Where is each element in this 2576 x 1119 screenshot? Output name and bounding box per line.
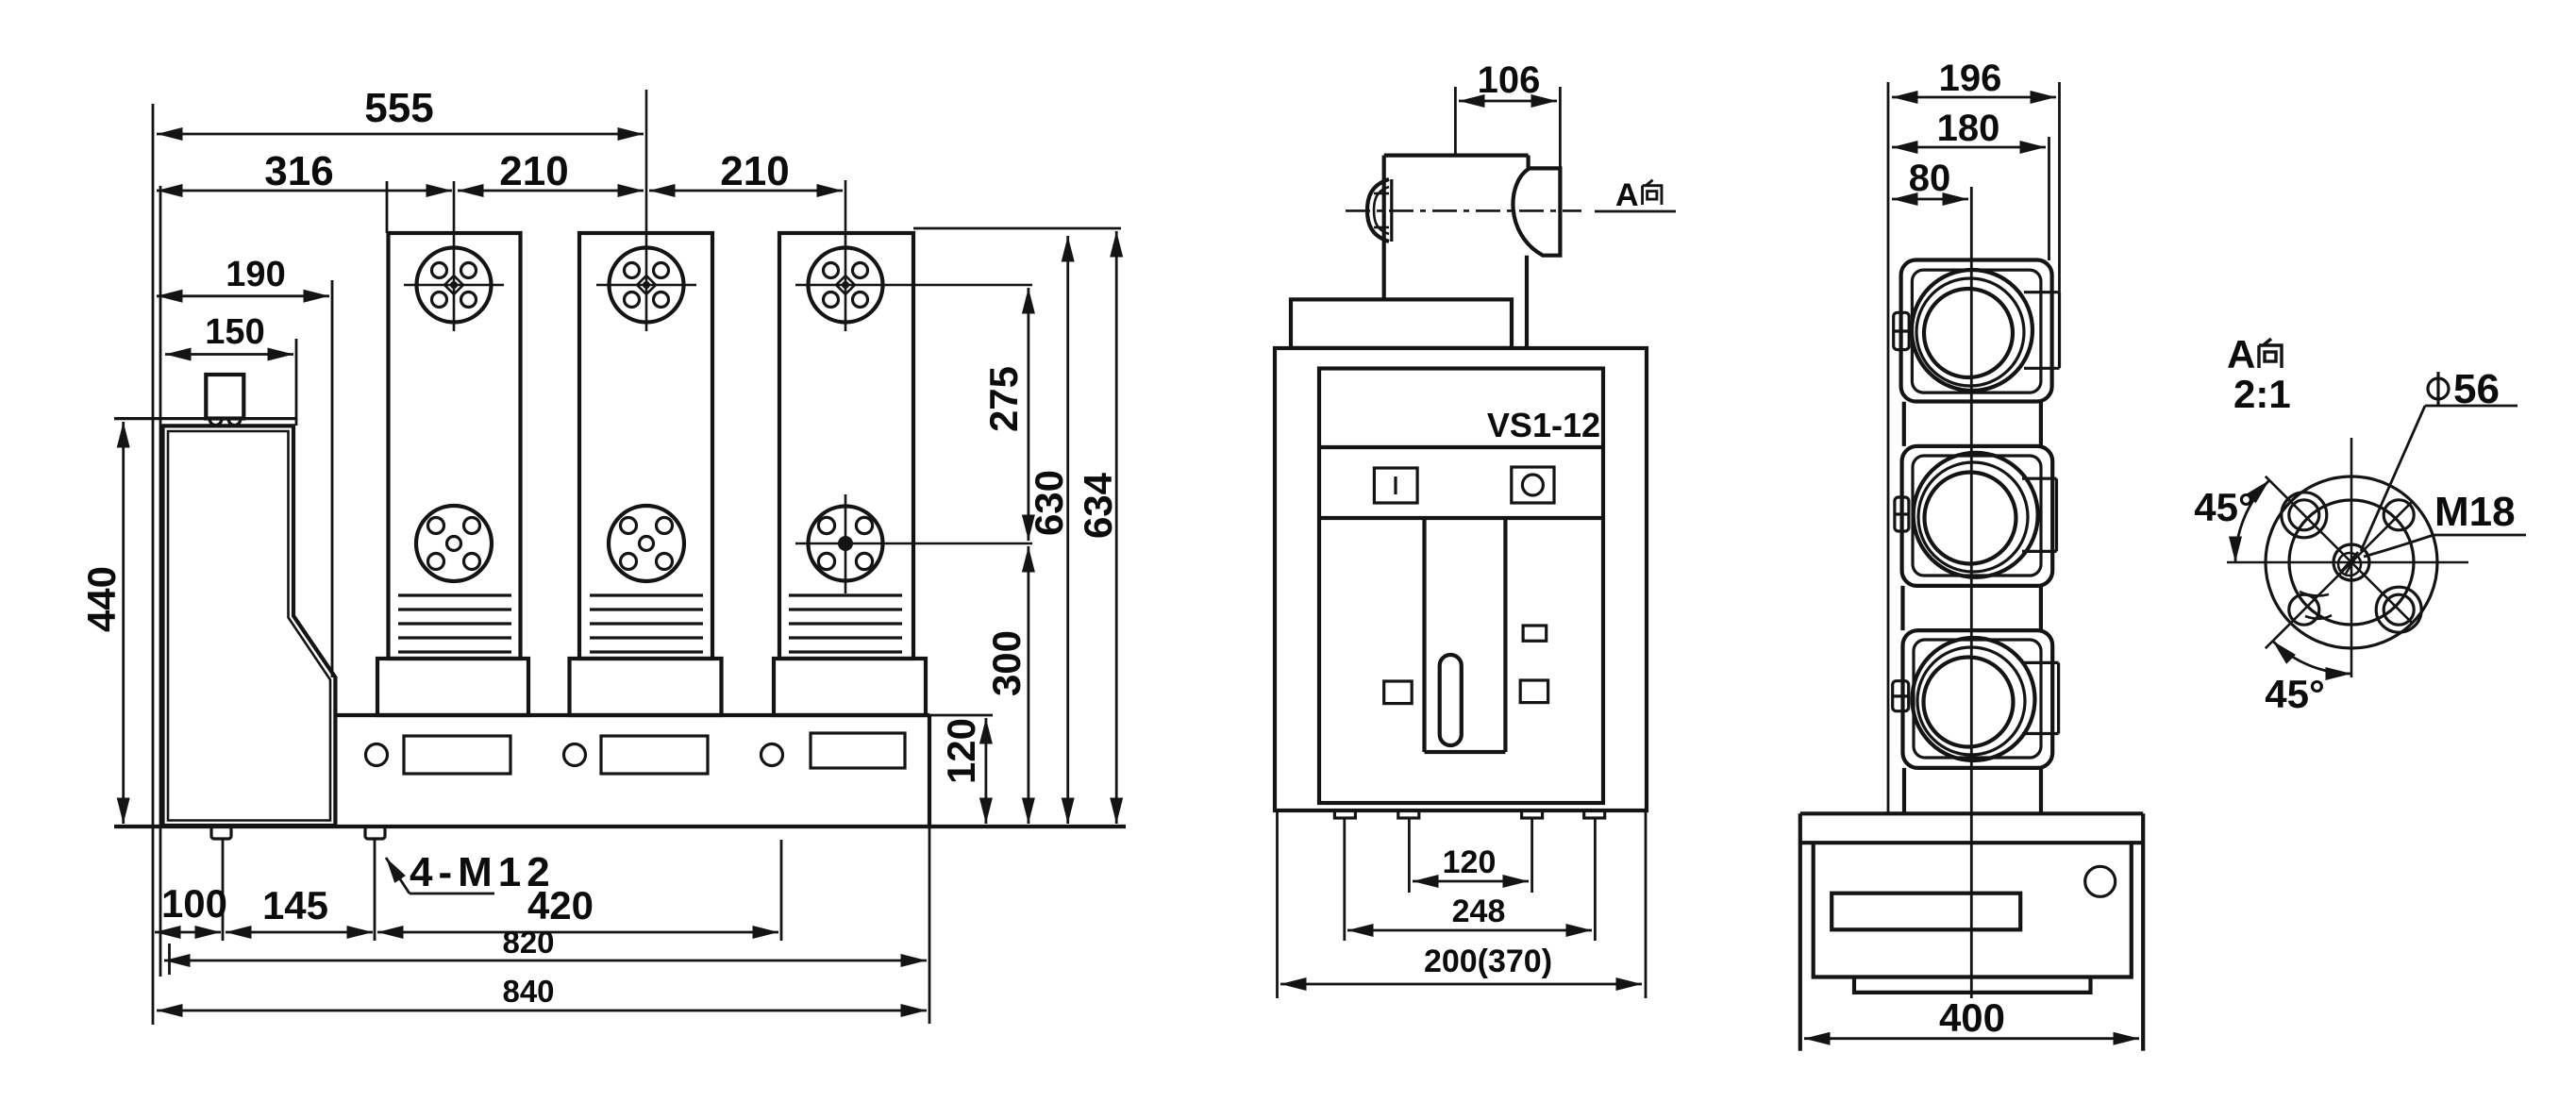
- pole 3 body: [779, 233, 913, 659]
- foot line 2: [1408, 818, 1411, 893]
- housing 1 inner: [1912, 270, 2040, 392]
- dim 80: [1892, 198, 1968, 201]
- svg-text:820: 820: [502, 925, 554, 960]
- svg-text:190: 190: [226, 255, 285, 294]
- svg-text:145: 145: [262, 883, 328, 927]
- dim 316: [157, 190, 452, 192]
- dim 106: [1459, 100, 1557, 103]
- dim 145: [226, 931, 373, 934]
- svg-text:2:1: 2:1: [2233, 372, 2291, 416]
- pole boot 1: [377, 659, 528, 715]
- channel right: [1503, 518, 1507, 752]
- svg-text:180: 180: [1937, 108, 2000, 149]
- foot tab 2: [1398, 810, 1419, 818]
- foot line 1: [1343, 818, 1346, 941]
- mech box foot 1: [211, 827, 231, 839]
- mechanism box outer: [163, 426, 336, 826]
- base outer side left: [1798, 813, 1802, 1050]
- pole centerline right view: [1970, 187, 1973, 998]
- svg-text:100: 100: [161, 881, 227, 926]
- hub scribble: [2341, 552, 2358, 574]
- spoke SE: [2351, 562, 2412, 623]
- mounting bracket: [1291, 299, 1512, 348]
- pole boot 2: [570, 659, 722, 715]
- dim 150: [165, 353, 293, 356]
- clip 3: [1893, 681, 1909, 711]
- hole circle 3: [761, 744, 783, 766]
- button I: [1374, 468, 1417, 503]
- bolt hole BR ring: [2376, 587, 2421, 632]
- lower flange pole 2: [609, 506, 684, 581]
- dim 248: [1347, 929, 1592, 932]
- crosshair vertical: [2350, 438, 2353, 677]
- top flange pole 1: [404, 181, 504, 331]
- centerline dash-dot: [1346, 209, 1581, 212]
- svg-text:634: 634: [1076, 472, 1120, 539]
- box side ext left: [1276, 810, 1279, 998]
- top block hook right: [228, 419, 241, 426]
- ext left long: [1887, 82, 1890, 814]
- dim 180: [1892, 146, 2046, 149]
- small square left: [1384, 681, 1413, 704]
- channel left: [1422, 518, 1426, 752]
- ext 420 right: [780, 840, 783, 941]
- oval slot: [1440, 655, 1462, 745]
- arc 45 bottom: [2273, 641, 2351, 674]
- svg-text:80: 80: [1909, 158, 1951, 199]
- foot 1 line: [222, 839, 225, 941]
- clip 2: [1895, 497, 1909, 531]
- housing 2 outer: [1902, 446, 2053, 586]
- svg-text:248: 248: [1452, 894, 1506, 929]
- contact dome arc: [1513, 168, 1543, 255]
- band line 1: [1319, 445, 1603, 449]
- dim 120 left view: [985, 718, 988, 824]
- dim 200(370): [1280, 983, 1642, 986]
- svg-text:210: 210: [499, 148, 568, 194]
- bracket 2: [2022, 478, 2057, 551]
- sketch marks: [2300, 592, 2332, 619]
- dim 190: [157, 294, 329, 297]
- svg-text:630: 630: [1027, 470, 1071, 536]
- dim 634: [1115, 231, 1118, 824]
- top flange pole 3: [795, 180, 1032, 331]
- spoke NW: [2266, 476, 2351, 562]
- base slot: [1832, 894, 2020, 930]
- extension line left inner: [159, 186, 162, 977]
- top block: [206, 375, 243, 419]
- svg-text:200(370): 200(370): [1424, 944, 1552, 979]
- pole body right step: [1526, 156, 1530, 170]
- foot line 3: [1531, 818, 1533, 893]
- bushing tick bottom: [1374, 226, 1389, 229]
- housing 2 circles: [1914, 453, 2038, 577]
- dim 275: [1028, 288, 1030, 541]
- base pedestal: [1854, 977, 2091, 993]
- svg-text:196: 196: [1939, 58, 2002, 99]
- housing 2 inner: [1913, 456, 2041, 576]
- svg-text:316: 316: [264, 148, 333, 194]
- svg-text:275: 275: [981, 366, 1026, 432]
- hub outer: [2333, 544, 2369, 580]
- ext 106 left: [1454, 87, 1457, 155]
- dim 120 middle: [1413, 880, 1529, 883]
- bolt hole TR: [2384, 500, 2414, 530]
- pole 3 hatch: [789, 595, 902, 652]
- right lower edge: [1525, 256, 1529, 348]
- phi symbol: [2428, 372, 2449, 406]
- base body: [1814, 843, 2132, 977]
- svg-text:A: A: [2227, 332, 2255, 376]
- foot tab 4: [1584, 810, 1605, 818]
- svg-text:210: 210: [720, 148, 789, 194]
- small square right upper: [1523, 626, 1547, 641]
- A-view underline: [1595, 210, 1676, 213]
- bolt hole TL ring: [2282, 493, 2327, 538]
- svg-text:150: 150: [205, 312, 264, 352]
- dim 400: [1804, 1037, 2139, 1040]
- dim 555: [157, 133, 644, 136]
- top flange pole 2: [596, 90, 696, 331]
- base top line: [1800, 811, 2143, 815]
- pole body top: [1384, 154, 1529, 158]
- base band line: [1800, 841, 2143, 844]
- button O: [1512, 467, 1554, 503]
- dim 630: [1066, 236, 1069, 824]
- dim 196: [1892, 96, 2056, 99]
- svg-text:M18: M18: [2434, 489, 2516, 535]
- bolt hole TL: [2289, 500, 2319, 530]
- lower flange pole 3: [795, 494, 1032, 593]
- outer circle: [2266, 476, 2437, 648]
- foot line 4: [1594, 818, 1597, 941]
- main box: [1275, 348, 1647, 810]
- ext 196 right: [2058, 82, 2061, 368]
- pole body left edge: [1382, 156, 1386, 300]
- leader 56 diagonal: [2361, 406, 2425, 551]
- svg-text:A: A: [1615, 177, 1639, 213]
- mech box foot 2: [365, 827, 385, 839]
- foot 2 line: [374, 839, 376, 941]
- ext pole1 left: [386, 181, 389, 233]
- spoke NE: [2351, 502, 2412, 562]
- contact cap: [1529, 168, 1561, 255]
- ext right top: [913, 227, 1121, 230]
- leader M18 underline: [2434, 534, 2526, 537]
- ext 180 right: [2048, 137, 2050, 260]
- svg-text:VS1-12: VS1-12: [1487, 406, 1600, 444]
- column gap 3: [1904, 768, 2041, 813]
- arc 45 top: [2235, 480, 2269, 562]
- pole 1 body: [389, 233, 521, 659]
- bracket 3: [2022, 662, 2059, 733]
- band line 2: [1319, 516, 1603, 520]
- channel bottom: [1425, 750, 1506, 754]
- column gap 2: [1903, 586, 2041, 630]
- button O circle: [1522, 475, 1543, 495]
- housing 3 inner: [1914, 640, 2041, 758]
- leader 56 underline: [2425, 405, 2517, 408]
- inner panel: [1319, 369, 1603, 804]
- dim 210 a: [458, 190, 644, 192]
- pole 2 body: [579, 233, 712, 659]
- svg-text:106: 106: [1478, 59, 1541, 101]
- mechanism box inner: [168, 431, 330, 821]
- base right edge extension: [928, 827, 931, 1024]
- pole 1 hatch: [398, 595, 511, 652]
- pole boot 3: [774, 659, 926, 715]
- bolt circle: [2289, 500, 2414, 625]
- A-view label detail: [2227, 332, 2282, 376]
- ext 820 left: [168, 944, 171, 975]
- lower flange pole 1: [416, 506, 492, 581]
- mech box top line: [114, 417, 297, 420]
- dim 420: [377, 931, 778, 934]
- hub inner sketch: [2338, 553, 2361, 576]
- svg-text:555: 555: [364, 85, 433, 131]
- foot tab 3: [1522, 810, 1543, 818]
- slot 3: [811, 733, 905, 768]
- svg-text:4-M12: 4-M12: [410, 849, 556, 895]
- svg-text:300: 300: [984, 630, 1029, 696]
- svg-text:120: 120: [1443, 844, 1497, 880]
- housing 3 circles: [1913, 638, 2035, 760]
- leader M18 curve: [2364, 535, 2434, 557]
- ground line: [114, 825, 1126, 828]
- dim 840: [157, 1010, 927, 1012]
- pole 2 hatch: [590, 595, 703, 652]
- slot 2: [601, 736, 708, 774]
- button I bar: [1394, 476, 1397, 494]
- base plate right edge: [928, 715, 931, 827]
- svg-text:400: 400: [1939, 995, 2005, 1040]
- ext 150: [295, 339, 298, 426]
- svg-text:45°: 45°: [2194, 485, 2254, 529]
- svg-text:840: 840: [502, 974, 554, 1009]
- column gap 1: [1904, 402, 2041, 446]
- base outer side right: [2141, 813, 2145, 1050]
- dim 100: [155, 931, 221, 934]
- svg-text:120: 120: [939, 718, 983, 784]
- base circle: [2085, 866, 2116, 896]
- top block hook left: [209, 419, 222, 426]
- slot 1: [404, 736, 510, 774]
- housing 1 outer: [1901, 260, 2052, 402]
- extension line left outer: [152, 104, 155, 1025]
- ext 190: [331, 280, 334, 677]
- clip 1: [1894, 312, 1910, 349]
- label 4-M12: [386, 858, 410, 894]
- base top extension right: [929, 714, 993, 717]
- bushing outer: [1367, 179, 1389, 242]
- hole circle 1: [366, 744, 388, 766]
- A-view label middle: [1615, 177, 1662, 213]
- dim 210 b: [649, 190, 843, 192]
- bracket 1: [2024, 292, 2060, 369]
- foot tab 1: [1334, 810, 1355, 818]
- ext 106 right: [1559, 87, 1562, 168]
- svg-text:45°: 45°: [2265, 672, 2325, 716]
- spoke SW: [2266, 562, 2351, 648]
- bushing face: [1390, 179, 1393, 242]
- crosshair horizontal: [2227, 561, 2468, 564]
- dim 440: [122, 422, 125, 824]
- housing 1 circles: [1912, 270, 2032, 391]
- bushing inner contour: [1374, 187, 1389, 234]
- bolt hole BR: [2384, 594, 2414, 625]
- box side ext right: [1645, 810, 1648, 998]
- hole circle 2: [564, 744, 586, 766]
- bushing tick top: [1374, 192, 1389, 195]
- dim 300: [1028, 546, 1030, 824]
- base plate top edge: [335, 713, 929, 717]
- svg-text:440: 440: [79, 566, 124, 632]
- dim 820: [164, 960, 927, 962]
- bolt hole BL: [2289, 594, 2319, 625]
- housing 3 outer: [1903, 630, 2053, 768]
- small square right lower: [1520, 680, 1547, 703]
